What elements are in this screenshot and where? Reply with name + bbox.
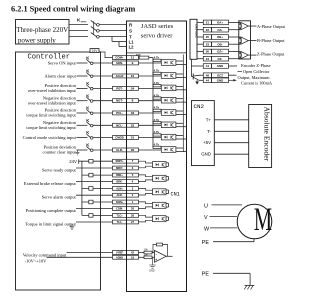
svg-text:+: +: [155, 258, 157, 262]
svg-text:BRK-: BRK-: [117, 181, 123, 184]
svg-text:23: 23: [206, 42, 210, 46]
svg-text:over-travel inhibition input: over-travel inhibition input: [28, 100, 77, 105]
svg-text:COIN+: COIN+: [116, 201, 124, 204]
svg-text:CN1-0501: CN1-0501: [194, 24, 198, 38]
svg-text:GND: GND: [217, 79, 223, 83]
svg-text:Three-phase 220V: Three-phase 220V: [16, 26, 68, 34]
svg-text:K: K: [86, 93, 89, 98]
svg-text:External brake release output: External brake release output: [24, 181, 77, 186]
svg-text:JASD series: JASD series: [141, 23, 174, 30]
svg-text:BRK+: BRK+: [116, 174, 123, 177]
svg-text:50: 50: [206, 50, 210, 54]
svg-text:24V: 24V: [69, 159, 77, 164]
svg-text:Velocity command input: Velocity command input: [23, 252, 67, 257]
svg-text:T+: T+: [206, 117, 212, 122]
svg-text:K: K: [86, 81, 89, 86]
svg-text:28: 28: [131, 213, 134, 217]
svg-text:11: 11: [131, 56, 135, 60]
svg-text:SRDY+: SRDY+: [115, 160, 124, 163]
svg-text:POT-: POT-: [116, 86, 123, 90]
svg-text:CLR-: CLR-: [116, 148, 123, 152]
svg-text:SRDY-: SRDY-: [116, 167, 124, 170]
svg-text:OB+: OB+: [217, 35, 223, 39]
svg-text:33: 33: [131, 111, 135, 115]
svg-text:B-Phase Output: B-Phase Output: [257, 38, 285, 43]
svg-text:34: 34: [131, 86, 135, 90]
svg-text:Open Collector: Open Collector: [243, 69, 270, 74]
svg-text:-10V~+10V: -10V~+10V: [25, 259, 47, 264]
svg-text:19: 19: [131, 255, 134, 259]
svg-text:GND: GND: [201, 152, 211, 157]
svg-text:GND: GND: [149, 270, 155, 273]
svg-text:+5V: +5V: [203, 140, 211, 145]
svg-text:over-travel inhibition input: over-travel inhibition input: [28, 88, 77, 93]
svg-text:48: 48: [206, 73, 210, 77]
svg-text:COIN-: COIN-: [116, 208, 123, 211]
svg-text:NOT-: NOT-: [116, 99, 123, 103]
svg-text:T-: T-: [207, 129, 211, 134]
svg-text:CN2: CN2: [194, 103, 205, 110]
svg-text:Control mode switching input: Control mode switching input: [23, 135, 77, 140]
svg-text:9: 9: [132, 61, 134, 65]
svg-text:K: K: [86, 130, 89, 135]
svg-text:NCL-: NCL-: [116, 123, 123, 127]
svg-text:PE: PE: [202, 240, 210, 246]
svg-text:Servo ready output: Servo ready output: [42, 167, 77, 172]
svg-text:30: 30: [131, 148, 135, 152]
svg-text:Servo alarm output: Servo alarm output: [42, 195, 77, 200]
svg-text:OZ-: OZ-: [218, 57, 223, 61]
svg-text:25: 25: [206, 35, 210, 39]
svg-text:V-REF: V-REF: [116, 252, 124, 255]
svg-text:21: 21: [206, 21, 210, 25]
svg-text:32: 32: [131, 123, 135, 127]
svg-text:PE: PE: [202, 272, 210, 278]
svg-text:OZ+: OZ+: [217, 50, 223, 54]
svg-text:OA-: OA-: [217, 28, 222, 32]
svg-text:24V: 24V: [92, 49, 99, 53]
svg-text:K: K: [86, 69, 89, 74]
svg-text:S: S: [129, 29, 132, 34]
svg-text:ALM+: ALM+: [116, 187, 123, 190]
svg-text:44: 44: [206, 64, 210, 68]
svg-text:42: 42: [131, 251, 134, 255]
svg-text:V: V: [204, 215, 208, 221]
svg-text:TLC+: TLC+: [116, 214, 123, 217]
svg-text:Positioning complete output: Positioning complete output: [26, 208, 77, 213]
svg-text:10k: 10k: [144, 252, 149, 256]
svg-text:Torque in limit signal output: Torque in limit signal output: [25, 221, 76, 226]
svg-text:torque limit switching input: torque limit switching input: [26, 125, 76, 130]
svg-text:U: U: [204, 204, 208, 210]
svg-text:Current is 100mA: Current is 100mA: [241, 81, 273, 86]
svg-text:torque limit switching input: torque limit switching input: [26, 113, 76, 118]
svg-text:24: 24: [206, 57, 210, 61]
svg-text:K: K: [86, 143, 89, 148]
svg-text:44: 44: [206, 79, 210, 83]
svg-text:OB-: OB-: [217, 42, 222, 46]
svg-text:Alarm clear input: Alarm clear input: [45, 74, 77, 79]
svg-text:OCZ: OCZ: [217, 73, 223, 77]
svg-text:counter clear input: counter clear input: [43, 150, 77, 155]
svg-text:100: 100: [136, 53, 141, 57]
svg-text:K: K: [86, 56, 89, 61]
svg-text:Encoder Z-Phase: Encoder Z-Phase: [241, 63, 271, 68]
svg-text:K: K: [86, 106, 89, 111]
svg-text:TLC-: TLC-: [117, 221, 123, 224]
svg-text:PCL-: PCL-: [116, 111, 123, 115]
svg-text:M: M: [254, 201, 272, 237]
svg-text:COM+: COM+: [115, 56, 124, 60]
svg-text:OA+: OA+: [217, 21, 223, 25]
svg-text:L2: L2: [129, 45, 135, 50]
svg-text:-: -: [156, 252, 157, 256]
svg-text:ACLR: ACLR: [116, 74, 124, 78]
svg-text:A-Phase Output: A-Phase Output: [257, 24, 286, 29]
svg-text:K: K: [86, 118, 89, 123]
svg-text:Absolute Encoder: Absolute Encoder: [263, 107, 272, 162]
svg-text:31: 31: [131, 136, 135, 140]
svg-text:10: 10: [131, 74, 135, 78]
svg-text:Z-Phase Output: Z-Phase Output: [257, 52, 285, 57]
svg-text:Servo ON input: Servo ON input: [48, 61, 77, 66]
svg-text:26: 26: [131, 207, 134, 211]
svg-text:servo driver: servo driver: [141, 33, 173, 40]
svg-text:22: 22: [206, 28, 210, 32]
svg-text:power supply: power supply: [18, 36, 56, 44]
svg-text:ALM-: ALM-: [117, 194, 123, 197]
svg-text:6.2.1 Speed control wiring dia: 6.2.1 Speed control wiring diagram: [11, 4, 135, 13]
svg-text:CMOD: CMOD: [115, 136, 124, 140]
svg-text:8: 8: [132, 99, 134, 103]
svg-text:GND: GND: [217, 64, 223, 68]
svg-text:27: 27: [131, 220, 134, 224]
svg-text:10k: 10k: [144, 248, 149, 252]
svg-text:AGND: AGND: [116, 256, 123, 259]
svg-text:SON-: SON-: [116, 61, 123, 65]
svg-text:CN1: CN1: [171, 192, 180, 198]
